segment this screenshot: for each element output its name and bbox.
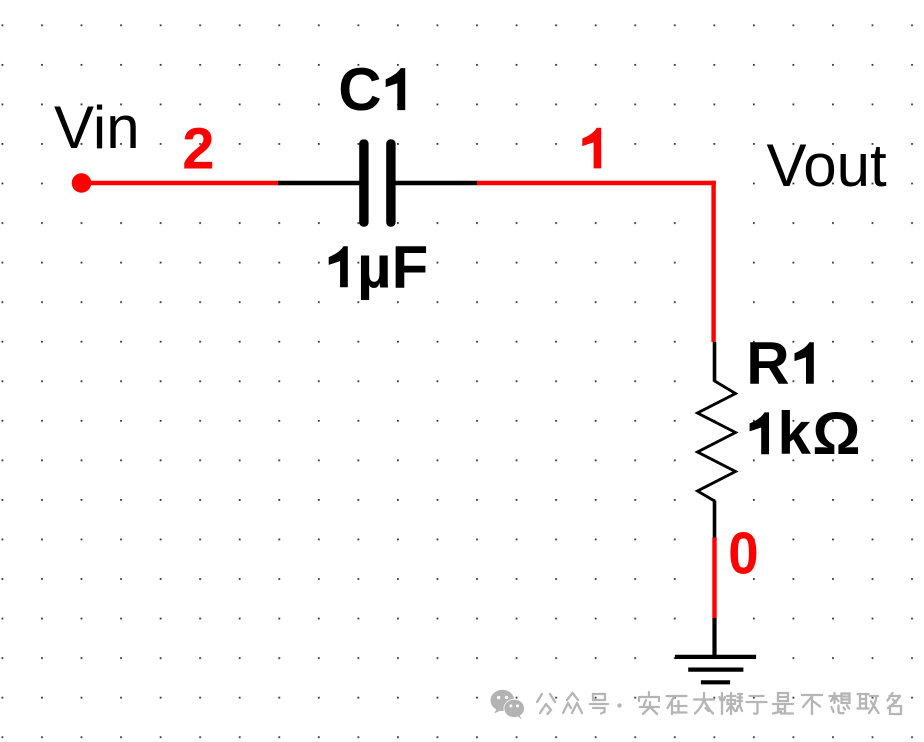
- capacitor C1: [359, 139, 395, 226]
- 太: [694, 693, 714, 714]
- svg-text:Vout: Vout: [767, 132, 887, 199]
- ·: [617, 703, 621, 707]
- 实: [639, 692, 659, 714]
- 号: [590, 694, 608, 714]
- label C1: [338, 56, 405, 123]
- 名: [888, 693, 902, 714]
- node Vin terminal dot: [72, 173, 92, 193]
- 不: [802, 695, 822, 714]
- value label 1µF: [329, 233, 429, 300]
- watermark text 公众号·实在太懒于是不想取名: [537, 692, 901, 714]
- 是: [773, 693, 793, 714]
- wire net 1 vertical (corner down to R1): [711, 181, 715, 342]
- svg-text:0: 0: [728, 521, 758, 587]
- 想: [830, 693, 850, 713]
- label R1: [746, 330, 814, 397]
- wire C1 left lead: [278, 181, 360, 185]
- 在: [667, 696, 687, 714]
- ground lead: [712, 618, 716, 657]
- value label 1kΩ: [750, 400, 862, 467]
- 于: [747, 696, 767, 714]
- 取: [858, 694, 879, 713]
- svg-text:kΩ: kΩ: [778, 400, 862, 467]
- 众: [563, 693, 582, 713]
- watermark wechat icon: [491, 690, 525, 720]
- ground symbol: [675, 657, 756, 682]
- wire net 1 horizontal (C1 to corner): [477, 181, 716, 185]
- resistor R1 bottom lead: [713, 501, 717, 539]
- svg-text:2: 2: [182, 117, 214, 182]
- resistor R1 zigzag body: [698, 381, 736, 501]
- 公: [537, 694, 555, 714]
- wire C1 right lead: [396, 181, 479, 185]
- svg-text:µF: µF: [357, 233, 428, 300]
- wire net 2 (Vin to C1 left): [82, 181, 281, 185]
- svg-text:R: R: [746, 330, 789, 397]
- resistor R1 top lead: [713, 342, 717, 382]
- wire net 0 (R1 to ground): [712, 538, 716, 619]
- net label 1: [582, 128, 601, 169]
- 懒: [720, 693, 743, 714]
- svg-text:Vin: Vin: [54, 94, 140, 161]
- svg-text:C: C: [338, 56, 381, 123]
